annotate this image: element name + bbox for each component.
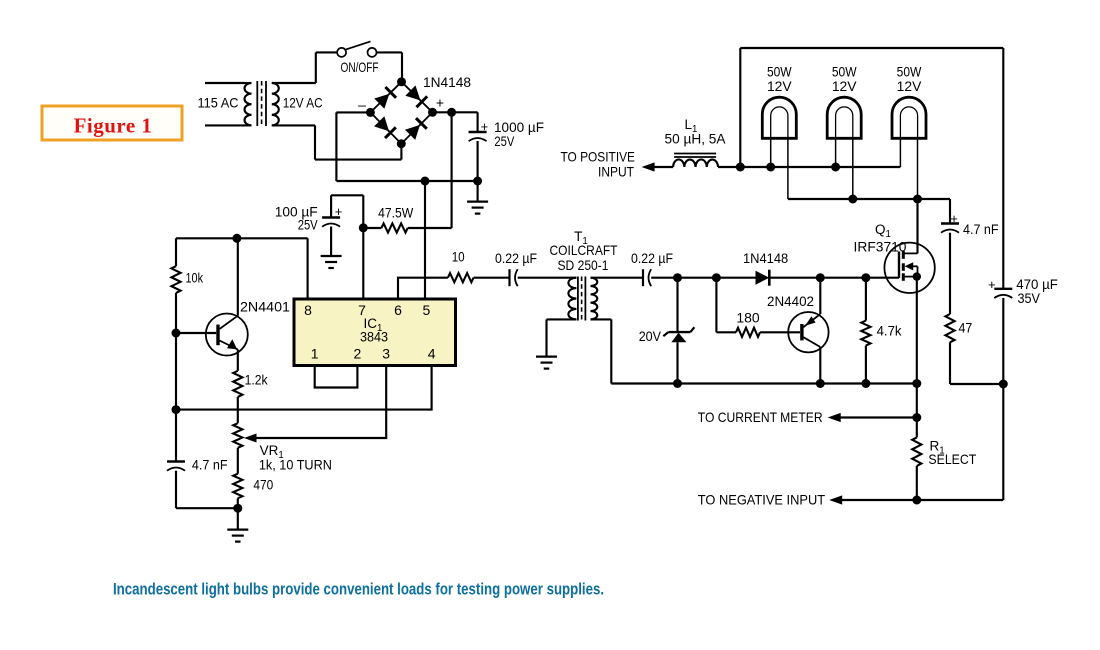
svg-text:1N4148: 1N4148 <box>423 74 471 90</box>
svg-text:Figure 1: Figure 1 <box>74 114 153 138</box>
svg-text:3843: 3843 <box>360 329 388 345</box>
svg-text:2: 2 <box>354 346 362 362</box>
svg-text:+: + <box>950 211 958 226</box>
svg-text:1: 1 <box>311 346 319 362</box>
svg-text:12V: 12V <box>832 78 857 94</box>
svg-text:6: 6 <box>394 302 402 318</box>
svg-text:8: 8 <box>304 302 312 318</box>
svg-text:1.2k: 1.2k <box>245 372 269 388</box>
svg-text:0.22 µF: 0.22 µF <box>631 250 673 266</box>
svg-text:20V: 20V <box>639 328 662 344</box>
svg-text:TO POSITIVE: TO POSITIVE <box>561 149 636 165</box>
svg-text:115 AC: 115 AC <box>198 95 239 111</box>
svg-text:35V: 35V <box>1018 290 1041 306</box>
svg-text:INPUT: INPUT <box>598 164 634 180</box>
svg-text:+: + <box>436 95 444 111</box>
svg-text:Q1: Q1 <box>875 222 891 240</box>
svg-text:47: 47 <box>959 319 973 335</box>
svg-text:5: 5 <box>423 302 431 318</box>
svg-text:12V AC: 12V AC <box>283 95 323 111</box>
svg-text:IRF3710: IRF3710 <box>854 239 907 255</box>
svg-text:ON/OFF: ON/OFF <box>341 59 379 75</box>
svg-text:12V: 12V <box>767 78 792 94</box>
svg-text:25V: 25V <box>494 133 515 149</box>
svg-text:3: 3 <box>382 346 390 362</box>
svg-text:1N4148: 1N4148 <box>743 250 788 266</box>
svg-text:TO NEGATIVE INPUT: TO NEGATIVE INPUT <box>698 492 826 508</box>
svg-text:+: + <box>988 277 996 292</box>
svg-text:1k, 10 TURN: 1k, 10 TURN <box>259 457 332 473</box>
svg-text:SD 250-1: SD 250-1 <box>558 257 609 273</box>
svg-text:47.5W: 47.5W <box>378 205 414 221</box>
svg-text:4.7 nF: 4.7 nF <box>192 457 228 473</box>
svg-text:Incandescent light bulbs provi: Incandescent light bulbs provide conveni… <box>113 581 604 599</box>
svg-text:COILCRAFT: COILCRAFT <box>550 242 618 258</box>
svg-text:SELECT: SELECT <box>928 451 976 467</box>
svg-text:470: 470 <box>253 477 273 493</box>
svg-text:2N4401: 2N4401 <box>240 299 290 315</box>
svg-text:4.7 nF: 4.7 nF <box>963 221 999 237</box>
svg-text:+: + <box>335 204 343 219</box>
svg-text:25V: 25V <box>298 216 319 232</box>
svg-text:50 µH, 5A: 50 µH, 5A <box>665 130 727 146</box>
svg-text:4: 4 <box>428 346 436 362</box>
svg-text:10: 10 <box>452 249 465 265</box>
svg-text:+: + <box>481 119 489 134</box>
svg-text:TO CURRENT METER: TO CURRENT METER <box>698 409 823 425</box>
svg-text:4.7k: 4.7k <box>877 323 903 339</box>
svg-text:12V: 12V <box>897 78 922 94</box>
svg-text:180: 180 <box>736 310 760 326</box>
svg-text:10k: 10k <box>186 270 204 286</box>
svg-text:–: – <box>358 97 366 113</box>
svg-text:2N4402: 2N4402 <box>767 293 814 309</box>
svg-text:0.22 µF: 0.22 µF <box>495 250 537 266</box>
